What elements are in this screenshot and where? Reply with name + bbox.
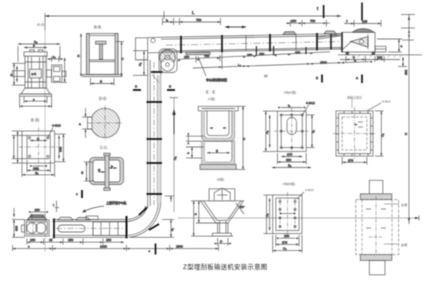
inner dims xyxy=(98,171,105,173)
bottom dim row 2 xyxy=(13,248,219,250)
svg-text:B₂: B₂ xyxy=(288,164,292,168)
dim rows above xyxy=(18,43,60,45)
svg-text:150: 150 xyxy=(106,238,111,242)
dim row under run (left, sloped) xyxy=(178,52,330,60)
bottom dims xyxy=(280,237,295,239)
svg-text:245: 245 xyxy=(59,147,63,152)
top flange plate xyxy=(198,106,238,111)
corner section with inspection hole xyxy=(136,38,160,83)
svg-text:C-C: C-C xyxy=(100,145,107,150)
right dim xyxy=(380,111,382,156)
svg-text:150: 150 xyxy=(284,234,289,238)
svg-text:c: c xyxy=(76,192,78,196)
legs xyxy=(346,52,349,55)
bottom horizontal run (tail) xyxy=(12,196,219,255)
svg-text:D: D xyxy=(169,85,172,89)
svg-text:Z型埋刮板输送机安装示意图: Z型埋刮板输送机安装示意图 xyxy=(183,262,268,271)
svg-text:C: C xyxy=(121,57,125,60)
upper trough xyxy=(202,111,235,142)
section view B-B (casing channel with T-bolt) xyxy=(77,34,125,86)
top small dims xyxy=(281,107,302,109)
left small dims xyxy=(187,136,189,141)
head cover hump xyxy=(352,29,374,33)
svg-text:4-Φ12: 4-Φ12 xyxy=(306,101,315,105)
section mark A (top right) xyxy=(361,3,363,21)
svg-text:150: 150 xyxy=(184,55,189,59)
shaft across xyxy=(12,71,25,77)
svg-text:1500: 1500 xyxy=(176,245,183,249)
svg-text:t₂: t₂ xyxy=(166,18,169,22)
left dims xyxy=(16,66,18,82)
view B: square mounting flange with bolt holes xyxy=(12,124,66,177)
lower trough xyxy=(202,141,235,164)
section mark E (top right) xyxy=(317,5,324,18)
svg-text:h₁: h₁ xyxy=(170,228,174,231)
svg-text:150: 150 xyxy=(291,19,296,23)
svg-text:A₁: A₁ xyxy=(53,55,56,59)
bottom dim xyxy=(342,161,367,163)
svg-text:1000: 1000 xyxy=(100,245,107,249)
svg-text:上部开设于Φ处: 上部开设于Φ处 xyxy=(106,200,126,205)
elbow curve xyxy=(128,203,161,237)
svg-text:750: 750 xyxy=(204,54,209,58)
section mark E lower xyxy=(321,75,323,83)
right edge overall height dimension xyxy=(401,14,415,224)
inner dim arrows xyxy=(283,213,292,215)
svg-text:750: 750 xyxy=(196,18,201,22)
svg-text:1500: 1500 xyxy=(320,60,327,64)
svg-text:A-A: A-A xyxy=(37,22,44,27)
leader note above elbow xyxy=(84,206,104,212)
svg-text:150: 150 xyxy=(295,51,300,55)
leader 4-phi12 xyxy=(302,105,309,115)
svg-text:D: D xyxy=(220,240,223,244)
right short dim under ground xyxy=(402,57,404,67)
svg-text:t₃: t₃ xyxy=(288,104,291,108)
section view E-E (double trough) xyxy=(186,106,246,169)
svg-text:a: a xyxy=(401,44,403,48)
left end dims xyxy=(13,220,15,238)
svg-text:252: 252 xyxy=(404,70,408,75)
right vertical dim xyxy=(64,58,66,83)
left dims xyxy=(269,198,271,230)
svg-text:H₁: H₁ xyxy=(138,63,142,66)
section mark D right xyxy=(167,89,175,91)
bottom-right support mount (dashed installation view) xyxy=(356,180,407,274)
flange joint bold xyxy=(53,219,55,239)
section view C-C (tube section with center rib) xyxy=(80,153,124,190)
angle dim xyxy=(236,203,244,214)
svg-text:750: 750 xyxy=(310,19,315,23)
discharge chute xyxy=(375,46,386,52)
cover hump on trough xyxy=(58,217,73,220)
svg-text:h: h xyxy=(194,213,198,215)
svg-text:D: D xyxy=(135,85,138,89)
small dims under head xyxy=(340,59,400,61)
svg-text:150: 150 xyxy=(30,238,35,242)
svg-text:D: D xyxy=(10,73,14,76)
dims left xyxy=(13,135,15,158)
svg-text:P: P xyxy=(33,44,35,48)
right of elbow dim xyxy=(170,220,172,238)
svg-text:a: a xyxy=(79,122,81,126)
left dims xyxy=(193,201,195,236)
vertical dim line right of column with flow arrow xyxy=(173,98,175,212)
svg-text:b₁: b₁ xyxy=(311,130,315,133)
svg-text:t: t xyxy=(53,203,54,207)
svg-text:276: 276 xyxy=(287,153,292,157)
top horizontal conveyor run xyxy=(148,19,381,83)
feed flange (right, tall rectangle) xyxy=(333,98,385,165)
bottom dim xyxy=(91,83,115,85)
feed flange F-A (upper left flange view) xyxy=(263,101,315,169)
svg-text:a: a xyxy=(111,164,113,168)
left dim xyxy=(86,162,88,181)
svg-text:G₁: G₁ xyxy=(35,171,38,175)
inspection covers on top xyxy=(283,32,296,35)
svg-text:中心线对称布置: 中心线对称布置 xyxy=(206,77,227,82)
small inner marks xyxy=(358,121,363,123)
left dims xyxy=(269,115,271,148)
svg-text:F向(B型): F向(B型) xyxy=(283,181,295,186)
column flange joints xyxy=(151,71,163,73)
base feet xyxy=(21,88,50,94)
right dim xyxy=(311,115,313,148)
svg-text:8: 8 xyxy=(353,56,355,60)
svg-text:7: 7 xyxy=(346,20,348,24)
svg-text:B-B: B-B xyxy=(94,25,101,30)
section view A-A (corner sprocket shaft assembly) xyxy=(10,28,68,252)
right dim H xyxy=(242,106,244,169)
svg-text:E: E xyxy=(316,76,318,80)
bottom dims xyxy=(24,100,47,102)
section mark C (below C-C) xyxy=(76,190,82,198)
svg-text:4-Φ12: 4-Φ12 xyxy=(305,188,314,192)
svg-text:c: c xyxy=(28,245,30,249)
discharge flange F-B (bolt grid) xyxy=(264,192,305,253)
svg-text:300: 300 xyxy=(15,226,19,231)
svg-text:(A型): (A型) xyxy=(208,96,215,101)
right dim xyxy=(121,42,123,77)
svg-text:350: 350 xyxy=(286,158,291,162)
dim inside top xyxy=(30,140,47,142)
bottom slide cover xyxy=(186,52,210,54)
head section (drive end) xyxy=(317,29,422,67)
mid rail xyxy=(89,59,115,61)
extended dim row right half (sloped) with bold ext ticks xyxy=(255,46,257,56)
dimension line L (overall length, top) xyxy=(45,10,341,30)
dims right xyxy=(58,135,60,158)
svg-text:c: c xyxy=(149,249,151,253)
svg-text:t: t xyxy=(317,6,319,11)
svg-text:C₃: C₃ xyxy=(283,247,287,251)
cone xyxy=(201,201,244,223)
inner dim B xyxy=(207,152,230,154)
svg-text:t1: t1 xyxy=(98,168,101,172)
svg-text:B 向: B 向 xyxy=(31,117,39,123)
feed inlet stub on top right xyxy=(86,216,98,220)
inner slots xyxy=(58,225,85,232)
right bearing stand xyxy=(52,65,62,82)
bottom dim row 1 xyxy=(27,241,124,243)
intermediate flange joints xyxy=(180,36,182,54)
bottom dim D xyxy=(218,243,228,245)
ground line xyxy=(338,54,422,56)
tail box with sprockets xyxy=(25,220,50,236)
section mark c bottom xyxy=(155,244,157,255)
base xyxy=(200,165,236,170)
svg-text:m: m xyxy=(80,171,84,174)
svg-text:50°: 50° xyxy=(240,205,245,209)
svg-text:右视: 右视 xyxy=(401,242,407,247)
top box xyxy=(209,189,235,201)
svg-text:A: A xyxy=(356,76,359,80)
svg-text:E · E: E · E xyxy=(206,90,216,95)
section mark A lower xyxy=(361,75,363,84)
trough body xyxy=(53,219,127,221)
svg-text:D-D: D-D xyxy=(99,96,106,101)
bottom dims xyxy=(33,165,44,167)
leader to cover note xyxy=(198,57,206,77)
neck xyxy=(217,223,219,233)
svg-text:加料口法兰: 加料口法兰 xyxy=(347,95,362,100)
svg-text:B: B xyxy=(216,149,218,153)
svg-text:L: L xyxy=(192,10,195,15)
head sprocket xyxy=(351,37,368,48)
top cap with knobs xyxy=(30,50,34,52)
svg-text:B: B xyxy=(100,80,102,84)
svg-text:150: 150 xyxy=(35,208,40,212)
left dim xyxy=(80,34,82,77)
feed funnel view (B type inlet) xyxy=(191,188,245,245)
main gear body xyxy=(25,56,47,88)
svg-text:150: 150 xyxy=(377,56,382,60)
vertical conveyor column xyxy=(133,51,178,212)
svg-text:150: 150 xyxy=(259,52,264,56)
svg-text:24.1: 24.1 xyxy=(33,166,39,170)
svg-text:左视: 左视 xyxy=(401,202,407,207)
svg-text:M: M xyxy=(264,74,268,79)
svg-text:15: 15 xyxy=(49,238,53,242)
top dims at tail xyxy=(32,211,45,213)
secondary top dim row xyxy=(163,21,221,23)
svg-text:H: H xyxy=(77,55,81,57)
svg-text:n: n xyxy=(186,152,190,154)
T bolt xyxy=(96,41,107,44)
svg-text:F向(A型): F向(A型) xyxy=(284,90,296,95)
svg-text:150: 150 xyxy=(247,53,252,57)
left height dimension xyxy=(143,51,145,75)
dim row y=67 (right of head) xyxy=(286,22,330,24)
svg-text:4-Φ13: 4-Φ13 xyxy=(52,124,61,128)
long dim row (sloped) xyxy=(193,62,369,68)
vertical dim right of head xyxy=(398,39,400,52)
dim 165 top right xyxy=(344,23,381,25)
svg-text:(B型): (B型) xyxy=(217,177,224,182)
section mark D left xyxy=(133,89,141,91)
svg-text:H: H xyxy=(404,133,408,135)
svg-text:H₂: H₂ xyxy=(173,156,177,160)
svg-text:A₃: A₃ xyxy=(265,213,269,217)
right small dim A1 xyxy=(51,56,53,62)
svg-text:150: 150 xyxy=(68,238,73,242)
bottom flange xyxy=(83,74,123,76)
elbow joint dashes xyxy=(139,208,147,216)
svg-text:276: 276 xyxy=(282,240,287,244)
svg-text:-4-Φ12: -4-Φ12 xyxy=(381,100,391,104)
foot flange xyxy=(213,233,232,236)
svg-text:165: 165 xyxy=(362,20,367,24)
drive sprocket at corner xyxy=(159,49,177,73)
svg-text:H: H xyxy=(242,138,246,140)
svg-text:276: 276 xyxy=(348,158,353,162)
leader 4-d13 xyxy=(48,128,53,138)
tension screw cover (hatched hump) xyxy=(27,216,47,221)
short 750 dim with bold arrows xyxy=(225,26,246,28)
svg-text:s: s xyxy=(33,97,35,101)
bottom dims xyxy=(281,156,302,158)
svg-text:n=6: n=6 xyxy=(32,72,37,76)
long horizontal centerline of lower run (axis through funnel and flanges) xyxy=(178,216,419,221)
section view D-D (solid shaft circle, hatched) xyxy=(79,106,122,140)
